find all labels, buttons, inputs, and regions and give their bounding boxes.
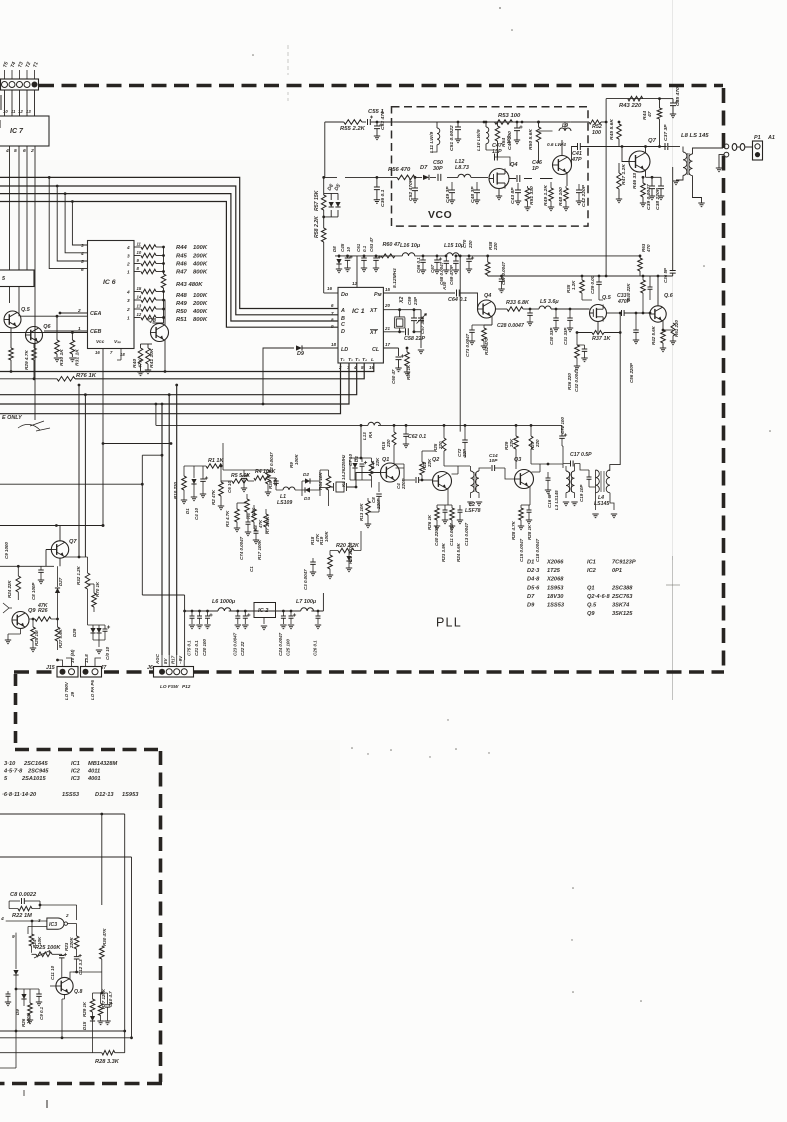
svg-text:R5 5.6K: R5 5.6K bbox=[231, 473, 251, 479]
svg-text:R29 1K: R29 1K bbox=[82, 1001, 87, 1017]
svg-text:R46: R46 bbox=[176, 262, 188, 268]
svg-text:D7: D7 bbox=[420, 165, 428, 171]
capacitor C25 100 bbox=[290, 610, 293, 613]
IC 7 box bbox=[0, 116, 49, 146]
summing node wire to Q8 bbox=[153, 318, 164, 324]
svg-text:R55 2.2K: R55 2.2K bbox=[340, 126, 366, 132]
data bus C line bbox=[0, 194, 338, 321]
wire down to gate bbox=[101, 814, 103, 905]
lower section dashed border bbox=[15, 748, 161, 752]
svg-text:4: 4 bbox=[353, 365, 357, 370]
capacitor C66 0.1 bbox=[422, 255, 425, 258]
R12 wires bbox=[320, 470, 329, 476]
svg-text:100K: 100K bbox=[294, 454, 299, 465]
svg-text:R21 33D28: R21 33D28 bbox=[348, 542, 353, 564]
resistor R38 220 vertical bbox=[486, 255, 489, 258]
svg-text:R57 15K: R57 15K bbox=[314, 189, 320, 211]
svg-text:C63 47: C63 47 bbox=[369, 237, 374, 252]
svg-text:R22 1M: R22 1M bbox=[12, 913, 32, 919]
gate input wires bbox=[6, 921, 47, 934]
IC 6 box bbox=[88, 241, 135, 349]
antenna stub bbox=[3, 603, 12, 613]
svg-text:L6 1000μ: L6 1000μ bbox=[212, 599, 236, 605]
capacitor C39 0.0047 bbox=[649, 186, 655, 189]
svg-text:15P: 15P bbox=[492, 149, 502, 155]
inductor L1 LS109 bbox=[283, 487, 295, 490]
svg-text:100K: 100K bbox=[324, 531, 329, 542]
svg-text:7C9123P: 7C9123P bbox=[612, 560, 636, 566]
svg-text:C40 220P: C40 220P bbox=[434, 526, 439, 546]
svg-text:47P: 47P bbox=[571, 157, 582, 163]
svg-text:RA: RA bbox=[368, 432, 373, 438]
capacitor C36 5P bbox=[670, 271, 676, 274]
capacitor C68 0.0047 bbox=[445, 255, 448, 258]
svg-text:13.8: 13.8 bbox=[84, 654, 89, 663]
Q5 emitter resistor bbox=[10, 328, 12, 349]
svg-text:R45: R45 bbox=[176, 254, 188, 260]
capacitor C2 0.0047 bbox=[275, 478, 277, 480]
capacitor C3 0.0047 bbox=[312, 558, 314, 562]
svg-text:CL: CL bbox=[372, 347, 379, 353]
svg-text:E ONLY: E ONLY bbox=[2, 415, 23, 421]
IC 1 box bbox=[338, 287, 383, 363]
capacitor C32 0.0047 bbox=[583, 345, 585, 350]
svg-text:C70: C70 bbox=[462, 239, 467, 248]
resistor R29 22K vertical bbox=[514, 436, 519, 449]
svg-text:Pᴍ: Pᴍ bbox=[374, 292, 382, 298]
svg-text:Q.5: Q.5 bbox=[587, 603, 597, 609]
svg-text:R33 6.8K: R33 6.8K bbox=[506, 300, 530, 306]
svg-text:R51 330: R51 330 bbox=[529, 186, 535, 205]
IF rail extension bbox=[465, 431, 516, 433]
svg-text:10: 10 bbox=[3, 109, 8, 114]
source feedback resistor R37 1K bbox=[592, 322, 598, 333]
inductor L13 RA bbox=[368, 422, 380, 425]
LD net with diode D9 bbox=[262, 403, 265, 406]
svg-text:11: 11 bbox=[137, 242, 142, 247]
svg-text:L11 LW/9: L11 LW/9 bbox=[429, 132, 435, 153]
capacitor C43 8P bbox=[515, 190, 521, 193]
svg-text:C73 0.0047: C73 0.0047 bbox=[465, 333, 470, 357]
svg-text:X2: X2 bbox=[399, 297, 405, 304]
resistor R49 1.2K vertical bbox=[549, 188, 554, 201]
capacitor C37 3P bbox=[666, 147, 668, 156]
CEB wire bbox=[0, 332, 88, 334]
Q3 collector to L3 bbox=[531, 464, 540, 472]
inductor L5 3.6u bbox=[539, 306, 551, 309]
svg-text:C13 0.0047: C13 0.0047 bbox=[464, 522, 469, 546]
resistor R23 3.9K vertical bbox=[450, 508, 455, 520]
svg-text:C45: C45 bbox=[340, 243, 345, 252]
svg-text:C57 30P: C57 30P bbox=[420, 317, 425, 334]
svg-text:C35 470: C35 470 bbox=[675, 87, 681, 106]
lower horizontal wire 2 bbox=[0, 1037, 132, 1039]
left edge cap bbox=[7, 991, 9, 994]
long vertical from filter to IF rail bbox=[459, 256, 461, 432]
resistor R19 100K vertical bbox=[328, 555, 333, 569]
svg-text:C4 10: C4 10 bbox=[194, 508, 199, 520]
svg-text:R64 10K: R64 10K bbox=[318, 472, 323, 490]
svg-text:R76 1K: R76 1K bbox=[76, 373, 97, 379]
resistor R29 1K vertical bbox=[92, 993, 94, 999]
capacitor C60 47 bbox=[396, 357, 402, 360]
svg-text:Q9: Q9 bbox=[28, 608, 36, 614]
transistor Q6 VCO buffer bbox=[553, 156, 572, 175]
svg-text:R40: R40 bbox=[132, 359, 138, 368]
svg-text:CEB: CEB bbox=[90, 329, 102, 335]
Q7 base emitter wires bbox=[46, 550, 60, 567]
capacitor C59 23P bbox=[413, 310, 415, 318]
antenna jack wires bbox=[701, 147, 723, 149]
capacitor C72 100 bbox=[561, 425, 563, 436]
Q2 emitter parts bbox=[447, 488, 449, 505]
R20 2.2K bias bbox=[338, 548, 354, 553]
capacitor C45 10 bbox=[347, 256, 349, 258]
svg-text:R2 47K: R2 47K bbox=[211, 489, 216, 505]
resistor R52 100 bbox=[589, 120, 601, 124]
svg-text:C6 10: C6 10 bbox=[227, 481, 232, 493]
svg-text:R1 1K: R1 1K bbox=[208, 458, 224, 464]
svg-text:D9: D9 bbox=[297, 351, 304, 357]
svg-text:C25 100: C25 100 bbox=[286, 639, 291, 656]
svg-text:R48: R48 bbox=[176, 293, 188, 299]
svg-text:22K: 22K bbox=[509, 438, 514, 448]
svg-text:C38 220P: C38 220P bbox=[655, 187, 661, 210]
svg-text:R28 4.7K: R28 4.7K bbox=[511, 520, 516, 540]
resistor R15 220 vertical bbox=[392, 432, 396, 445]
svg-text:4: 4 bbox=[80, 251, 84, 256]
supply cluster above IC1 bbox=[335, 255, 381, 257]
svg-text:R17 100K: R17 100K bbox=[257, 539, 262, 560]
svg-text:1.2K: 1.2K bbox=[571, 280, 576, 290]
svg-text:Q.5: Q.5 bbox=[602, 295, 612, 301]
svg-text:R3 4.7K: R3 4.7K bbox=[225, 510, 230, 527]
Q8 collector wire bbox=[164, 300, 166, 325]
capacitor C63 47 bbox=[375, 256, 377, 258]
svg-text:Q1: Q1 bbox=[382, 457, 389, 463]
svg-text:C49 3P: C49 3P bbox=[445, 186, 451, 203]
svg-text:C2 0.0047: C2 0.0047 bbox=[269, 452, 274, 473]
svg-text:R7 100K: R7 100K bbox=[265, 516, 270, 534]
left lower wire bbox=[0, 565, 54, 567]
svg-text:47K: 47K bbox=[138, 358, 144, 369]
svg-text:100K: 100K bbox=[26, 1013, 31, 1024]
supply rail to J6 -9V bbox=[184, 611, 186, 660]
Q7 collector up wire bbox=[645, 147, 647, 154]
bus branch to IC6 pin3 bbox=[71, 200, 74, 203]
K1 to Q1 base bbox=[350, 473, 381, 488]
capacitor C50 30P bbox=[435, 176, 437, 178]
svg-text:Q.8: Q.8 bbox=[74, 989, 82, 995]
svg-text:R36 220: R36 220 bbox=[567, 373, 572, 390]
diode D27 bbox=[57, 566, 59, 587]
svg-text:R37 1K: R37 1K bbox=[592, 336, 611, 342]
capacitor C53 470 bbox=[376, 121, 379, 124]
CEA wire bbox=[20, 315, 88, 317]
svg-text:Q.6: Q.6 bbox=[664, 293, 674, 299]
svg-text:Do: Do bbox=[341, 292, 349, 298]
top right supply rail bbox=[571, 121, 589, 123]
svg-text:C37 3P: C37 3P bbox=[663, 124, 669, 141]
resistor R27 120K vertical bbox=[100, 993, 102, 1003]
capacitor C41 47P bbox=[578, 143, 581, 150]
resistor R6 10K vertical bbox=[245, 499, 250, 512]
lower horizontal wire 1 bbox=[0, 1030, 125, 1032]
diode D1 bbox=[193, 466, 195, 478]
svg-text:D1: D1 bbox=[185, 508, 190, 514]
resistor R32 470 vertical bbox=[483, 325, 485, 328]
resistor R63 470 vertical bbox=[639, 255, 642, 258]
svg-text:C10 4.7: C10 4.7 bbox=[108, 991, 113, 1007]
svg-text:D4·8: D4·8 bbox=[527, 577, 540, 583]
hand drawn mark bbox=[18, 421, 50, 431]
lower bias rail bbox=[93, 992, 108, 994]
svg-text:D5·6: D5·6 bbox=[527, 585, 540, 591]
svg-text:220: 220 bbox=[535, 439, 540, 448]
svg-text:13: 13 bbox=[137, 304, 142, 309]
svg-text:12: 12 bbox=[352, 281, 357, 286]
svg-text:D15: D15 bbox=[82, 1021, 87, 1030]
diode D14 bbox=[13, 970, 18, 975]
svg-text:−9V: −9V bbox=[178, 655, 183, 664]
svg-text:3: 3 bbox=[81, 243, 84, 248]
svg-text:L5 3.6μ: L5 3.6μ bbox=[540, 299, 559, 305]
svg-text:R30 1K: R30 1K bbox=[59, 349, 65, 366]
lower horizontal wire 3 bbox=[0, 1052, 102, 1054]
svg-text:R59 1K: R59 1K bbox=[406, 364, 411, 380]
svg-text:IC1: IC1 bbox=[71, 761, 80, 767]
capacitor C55 1 bbox=[368, 119, 371, 125]
svg-text:XT: XT bbox=[369, 330, 378, 336]
capacitor C31 33P bbox=[569, 309, 571, 318]
svg-text:IC3: IC3 bbox=[49, 922, 57, 928]
svg-text:P1: P1 bbox=[754, 135, 761, 141]
svg-text:Q3: Q3 bbox=[514, 457, 521, 463]
svg-text:47K: 47K bbox=[258, 519, 263, 529]
capacitor C19 10P bbox=[588, 470, 590, 477]
svg-text:LO 790V: LO 790V bbox=[64, 681, 69, 700]
resistor R25 1M vertical bbox=[31, 627, 36, 641]
svg-text:13: 13 bbox=[26, 109, 31, 114]
svg-text:C8 0.0022: C8 0.0022 bbox=[10, 892, 37, 898]
Q4 emitter network bbox=[484, 316, 492, 325]
svg-text:4011: 4011 bbox=[87, 769, 100, 775]
svg-text:C51 0.0022: C51 0.0022 bbox=[449, 125, 455, 151]
svg-text:R60: R60 bbox=[383, 242, 393, 248]
svg-text:IC 2: IC 2 bbox=[258, 608, 269, 614]
svg-text:R47: R47 bbox=[176, 270, 188, 276]
svg-text:2: 2 bbox=[126, 307, 130, 312]
svg-text:XT: XT bbox=[369, 308, 378, 314]
resistor R8 47K vertical bbox=[252, 509, 257, 522]
J15 feed vertical bbox=[78, 385, 80, 557]
J6 feed verticals bbox=[161, 404, 163, 655]
svg-text:21: 21 bbox=[384, 326, 390, 331]
Q8 base wire bbox=[50, 977, 62, 986]
svg-text:C59: C59 bbox=[407, 296, 412, 305]
left supply wire bbox=[0, 525, 103, 527]
svg-text:6: 6 bbox=[23, 148, 26, 154]
svg-text:R26 1K: R26 1K bbox=[427, 514, 432, 530]
svg-text:R24 22K: R24 22K bbox=[7, 580, 12, 598]
capacitor C23 0.0047 bbox=[236, 610, 239, 613]
svg-text:C69 470P: C69 470P bbox=[449, 265, 454, 285]
svg-text:C9 1000: C9 1000 bbox=[4, 542, 9, 559]
bus branch to IC6 pin5 bbox=[56, 185, 59, 188]
svg-text:6: 6 bbox=[81, 267, 84, 272]
resistor R26 1K vertical bbox=[435, 508, 440, 520]
dashed link to lower board section bbox=[14, 674, 18, 748]
svg-text:220: 220 bbox=[386, 439, 391, 448]
resistor R46 33 vertical bbox=[641, 183, 646, 197]
svg-text:R23 3.9K: R23 3.9K bbox=[441, 542, 446, 562]
svg-text:D3: D3 bbox=[304, 496, 310, 501]
svg-text:Q4: Q4 bbox=[484, 293, 491, 299]
FET Q4 oscillator bbox=[489, 169, 509, 189]
resistor R35 1.2K vertical bbox=[581, 276, 583, 280]
varactor pair D6 D5 bbox=[324, 193, 338, 217]
svg-text:Vᴄᴄ: Vᴄᴄ bbox=[96, 339, 105, 344]
svg-text:LS145: LS145 bbox=[594, 501, 609, 507]
gate feedback wire bbox=[40, 905, 77, 920]
capacitor C61 0.1 bbox=[363, 256, 365, 258]
svg-text:R56 470: R56 470 bbox=[388, 167, 411, 173]
svg-text:3: 3 bbox=[127, 298, 130, 303]
svg-text:16: 16 bbox=[95, 350, 100, 355]
svg-text:200K: 200K bbox=[192, 254, 208, 260]
svg-text:Q4: Q4 bbox=[510, 162, 518, 168]
svg-text:3·10: 3·10 bbox=[4, 761, 16, 767]
svg-text:R28 1K: R28 1K bbox=[527, 524, 532, 540]
connector T1-T5 header bbox=[1, 79, 39, 90]
svg-text:800K: 800K bbox=[193, 270, 208, 276]
lower board feed wire B bbox=[0, 857, 132, 1038]
inductor L12 L8.73 bbox=[458, 174, 471, 177]
svg-text:1: 1 bbox=[127, 270, 130, 275]
resistor R25 220 vertical bbox=[442, 438, 446, 451]
inductor L15 10u bbox=[447, 253, 459, 256]
svg-text:R48 100: R48 100 bbox=[558, 187, 564, 206]
capacitor C30 33P bbox=[555, 309, 557, 318]
data bus A line bbox=[0, 177, 338, 308]
svg-text:C42 220P: C42 220P bbox=[581, 184, 587, 207]
svg-text:R70 1K: R70 1K bbox=[95, 581, 100, 597]
IC1 Pm line bbox=[383, 292, 455, 294]
resistor R47 800K bbox=[141, 269, 156, 274]
top right long vertical bbox=[672, 167, 674, 270]
svg-text:MB14328M: MB14328M bbox=[88, 761, 118, 767]
resistor R24 10K vertical bbox=[29, 934, 34, 946]
svg-text:5: 5 bbox=[81, 259, 84, 264]
svg-text:IC 7: IC 7 bbox=[10, 127, 24, 135]
resistor R7 100K vertical bbox=[264, 514, 269, 527]
svg-text:800K: 800K bbox=[193, 317, 208, 323]
capacitor C27 0.0047 bbox=[501, 276, 503, 279]
left bias rail bbox=[16, 988, 39, 990]
resistor R45 5.6K vertical bbox=[618, 122, 620, 124]
Q6 emitter resistor R29 4.7K bbox=[33, 344, 35, 349]
transformer L2 LSF78 bbox=[471, 471, 475, 493]
trimmer C57 30P bbox=[420, 310, 422, 318]
svg-text:PLL: PLL bbox=[436, 616, 462, 630]
IC 5 box partial bbox=[0, 270, 34, 287]
svg-text:C27 0.0047: C27 0.0047 bbox=[501, 261, 506, 285]
resistor R5 5.6K bbox=[232, 479, 248, 484]
capacitor C20 100 bbox=[206, 610, 209, 613]
resistor R47 1.2K vertical bbox=[618, 147, 620, 174]
svg-text:C72 100: C72 100 bbox=[560, 417, 565, 434]
resistor R56 470 bbox=[397, 175, 415, 180]
svg-text:L16 10μ: L16 10μ bbox=[400, 243, 421, 249]
transformer L4 LS145 bbox=[596, 470, 600, 493]
capacitor C70 220 bbox=[468, 255, 471, 258]
capacitor C67 bbox=[436, 255, 439, 258]
capacitor C26 0.1 bbox=[317, 610, 320, 613]
svg-text:L13: L13 bbox=[362, 432, 367, 440]
svg-text:C64 0.1: C64 0.1 bbox=[448, 297, 467, 303]
svg-text:Q9: Q9 bbox=[587, 611, 595, 617]
svg-text:C48 3P: C48 3P bbox=[470, 186, 476, 203]
capacitor C15 0.0047 bbox=[527, 510, 532, 512]
svg-text:C62 0.1: C62 0.1 bbox=[408, 434, 426, 440]
capacitor C69 470P bbox=[455, 255, 458, 258]
svg-text:11: 11 bbox=[11, 109, 16, 114]
svg-text:C17 0.5P: C17 0.5P bbox=[570, 452, 592, 458]
svg-text:2: 2 bbox=[126, 262, 130, 267]
resistor R46 400K bbox=[141, 261, 156, 266]
capacitor C14 10P bbox=[492, 465, 495, 471]
diode D9 lower bbox=[23, 989, 25, 994]
svg-text:10P: 10P bbox=[489, 458, 498, 463]
IC7 output wires down bbox=[9, 146, 11, 303]
svg-text:22K: 22K bbox=[375, 457, 380, 467]
svg-text:J6: J6 bbox=[147, 665, 153, 671]
J7 feed vertical bbox=[84, 395, 86, 557]
svg-text:12: 12 bbox=[137, 312, 142, 317]
svg-text:220P: 220P bbox=[376, 499, 381, 510]
driver line to Q7 bbox=[619, 146, 667, 148]
capacitor C34 bbox=[649, 276, 651, 287]
capacitor C22 22 bbox=[244, 610, 247, 613]
svg-text:D12·13: D12·13 bbox=[95, 792, 114, 798]
svg-text:4001: 4001 bbox=[87, 776, 101, 782]
svg-text:IC 1: IC 1 bbox=[352, 308, 365, 315]
svg-text:220K: 220K bbox=[69, 937, 74, 949]
svg-text:Q8: Q8 bbox=[148, 318, 157, 324]
resistor R50 5.6K vertical bbox=[538, 122, 540, 127]
svg-text:D: D bbox=[341, 329, 345, 335]
resistor R44 47 vertical bbox=[659, 99, 661, 108]
capacitor C46 1P bbox=[517, 175, 520, 182]
inductor L7 100u bbox=[301, 608, 314, 611]
inductor L11 UH/9 vertical bbox=[436, 122, 438, 128]
svg-text:T₂: T₂ bbox=[348, 357, 353, 363]
resistor R30 47K vertical bbox=[101, 905, 103, 946]
capacitor C52 470P bbox=[414, 177, 416, 188]
svg-text:4·5·7·8: 4·5·7·8 bbox=[3, 769, 23, 775]
resistor R50 400K bbox=[141, 307, 156, 312]
resistor R27 5.6K vertical bbox=[55, 627, 60, 641]
diode D15 bbox=[90, 1016, 95, 1021]
svg-text:L8.73: L8.73 bbox=[455, 165, 469, 171]
svg-text:LO PA P6: LO PA P6 bbox=[90, 680, 95, 700]
IC1 Do wire bbox=[324, 292, 338, 294]
svg-text:X2068: X2068 bbox=[546, 577, 564, 583]
branch down to supply rail bbox=[142, 484, 184, 611]
svg-text:R46 33: R46 33 bbox=[632, 173, 638, 189]
resistor R55 2.2K bbox=[325, 121, 344, 123]
resistor R45 200K bbox=[141, 253, 156, 258]
